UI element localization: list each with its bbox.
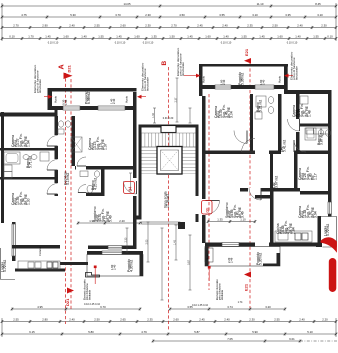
left unit facade wall west section — [0, 113, 58, 117]
section marker E21 bottom — [244, 272, 251, 278]
section line E21 (red dashed) — [249, 63, 251, 308]
interior wall camera1/bagno — [0, 148, 57, 151]
svg-text:5.21 m2: 5.21 m2 — [259, 100, 263, 112]
svg-text:4.30 m2: 4.30 m2 — [130, 260, 134, 272]
right unit facade east section — [285, 90, 332, 94]
kitchen bottom wall — [15, 269, 65, 272]
room label lav — [272, 176, 279, 188]
svg-text:0.10: 0.10 — [9, 35, 15, 39]
right balcony left wall — [199, 64, 203, 96]
svg-text:6.70: 6.70 — [100, 305, 106, 309]
elemento decorativo note top-left-right — [141, 63, 150, 91]
closet corridor — [71, 137, 82, 152]
svg-text:3.74: 3.74 — [227, 305, 233, 309]
svg-text:6.15: 6.15 — [29, 330, 35, 334]
facade join — [55, 110, 58, 117]
svg-text:3.67 m2: 3.67 m2 — [275, 176, 279, 188]
elevator shaft — [157, 147, 182, 175]
room label bagno left — [26, 156, 33, 168]
svg-text:3.46: 3.46 — [241, 211, 245, 218]
kitchen counter left — [18, 261, 60, 269]
room label corridoio — [64, 171, 71, 185]
corridor south wall right unit — [240, 188, 300, 192]
left balcony right thick edge — [140, 251, 144, 276]
room label soggiorno right — [225, 202, 245, 218]
dim row end ties — [1, 3, 3, 41]
right unit bottom wall — [205, 243, 320, 247]
right balcony parapet top — [199, 64, 288, 67]
svg-text:5.72 m2: 5.72 m2 — [326, 224, 330, 236]
room label camera 2 right — [292, 103, 312, 117]
dimension row top 3 — [1, 26, 338, 29]
svg-text:0.10 0.10: 0.10 0.10 — [287, 42, 298, 45]
corridor east wall — [72, 116, 76, 166]
room label camera 4 right — [298, 204, 318, 218]
svg-text:11.10: 11.10 — [257, 2, 264, 6]
svg-text:3.55: 3.55 — [219, 13, 225, 17]
loggia west wall — [318, 216, 322, 247]
svg-text:5.80: 5.80 — [88, 330, 94, 334]
wall camera-mid south — [75, 166, 133, 170]
svg-text:3.10: 3.10 — [252, 13, 258, 17]
svg-text:8.45: 8.45 — [315, 2, 321, 6]
svg-text:1.40: 1.40 — [81, 35, 87, 39]
svg-text:5.10: 5.10 — [307, 330, 313, 334]
room label camera 3 right — [298, 166, 318, 180]
svg-text:3.04: 3.04 — [230, 111, 234, 118]
svg-text:Vuoto: Vuoto — [278, 75, 282, 83]
svg-text:0.10 2.45 0.10: 0.10 2.45 0.10 — [84, 303, 101, 306]
svg-text:1.55: 1.55 — [98, 35, 104, 39]
svg-text:2.60: 2.60 — [120, 24, 126, 28]
svg-text:5.30 m2: 5.30 m2 — [259, 253, 263, 265]
svg-text:1.35: 1.35 — [217, 218, 223, 222]
svg-text:2.40: 2.40 — [299, 318, 305, 322]
loggia wall piece — [316, 243, 322, 248]
svg-text:2.45: 2.45 — [197, 24, 203, 28]
svg-text:14.05: 14.05 — [124, 2, 131, 6]
loggia right outline — [318, 217, 337, 248]
corner piece — [178, 222, 185, 229]
room label bagno small — [91, 178, 98, 190]
bathtub left bagno — [4, 152, 20, 164]
svg-text:2.40: 2.40 — [69, 318, 75, 322]
room label poggiolo top left — [85, 91, 92, 104]
svg-text:3.10: 3.10 — [317, 13, 323, 17]
svg-text:2.40: 2.40 — [69, 24, 75, 28]
svg-text:6.01: 6.01 — [289, 337, 295, 341]
svg-text:2.40: 2.40 — [112, 98, 116, 104]
stairwell entrance door arc left — [124, 181, 137, 194]
small bathroom walls — [78, 193, 105, 197]
svg-text:strutturale: strutturale — [146, 77, 150, 91]
svg-text:1.40: 1.40 — [64, 99, 68, 105]
big red swoosh arrow — [321, 237, 337, 253]
svg-text:0.10 0.10: 0.10 0.10 — [115, 42, 126, 45]
svg-text:4.20 m2: 4.20 m2 — [94, 178, 98, 190]
svg-text:2.20: 2.20 — [322, 318, 328, 322]
svg-text:2.50: 2.50 — [94, 318, 100, 322]
room label poggiolo top right — [238, 72, 245, 85]
svg-text:2.33: 2.33 — [124, 237, 127, 242]
room label bagno right 1 — [256, 100, 263, 112]
soggiorno/cucina stub wall — [255, 195, 274, 199]
svg-text:1.60: 1.60 — [205, 35, 211, 39]
section marker D21 bottom — [67, 288, 74, 294]
svg-text:1.30: 1.30 — [152, 113, 155, 118]
room label vano scala — [164, 191, 171, 208]
dimension row top 4 — [1, 37, 338, 40]
svg-text:5.90: 5.90 — [252, 330, 258, 334]
stairs left flight treads — [142, 147, 158, 171]
svg-text:5.87: 5.87 — [187, 260, 190, 265]
svg-text:2.65: 2.65 — [120, 318, 126, 322]
interior dim horizontal — [77, 221, 142, 224]
room label loggia right — [324, 224, 331, 236]
svg-text:2.55: 2.55 — [13, 318, 19, 322]
window balcony left 1 — [63, 106, 80, 110]
svg-text:4.95: 4.95 — [37, 305, 43, 309]
svg-text:6.56 m2: 6.56 m2 — [87, 92, 91, 104]
right unit west wall — [202, 96, 206, 243]
svg-text:2.55: 2.55 — [274, 318, 280, 322]
svg-text:2.70: 2.70 — [13, 24, 19, 28]
svg-text:3.87 m2: 3.87 m2 — [320, 133, 324, 145]
left inset wall with window band — [12, 222, 16, 261]
svg-text:2.70: 2.70 — [171, 24, 177, 28]
cucina west wall — [270, 191, 274, 243]
stairwell right wall — [196, 125, 199, 223]
svg-text:2.40: 2.40 — [262, 79, 266, 85]
room label camera 1 left — [11, 133, 31, 147]
interior dims notch — [126, 228, 129, 252]
svg-text:17.36 m2: 17.36 m2 — [166, 194, 170, 208]
svg-text:Vuoto: Vuoto — [207, 253, 210, 260]
svg-text:1.45: 1.45 — [116, 35, 122, 39]
wall camera1R/bagnoR — [250, 94, 253, 152]
wall camera2R east — [296, 94, 300, 151]
svg-text:1.45: 1.45 — [45, 35, 51, 39]
svg-text:1.48: 1.48 — [308, 110, 312, 117]
room label soggiorno left — [93, 206, 113, 222]
svg-text:1.30: 1.30 — [27, 198, 31, 205]
section line center-right (red dashed) — [208, 94, 210, 290]
right unit facade with windows — [203, 85, 286, 89]
stairwell bottom thin wall — [142, 222, 181, 224]
svg-text:5.41 m2: 5.41 m2 — [283, 140, 287, 152]
left unit south wall mid — [88, 246, 137, 250]
elemento decorativo notes (black) — [33, 65, 42, 93]
room label bagno east — [317, 133, 324, 145]
wardrobe left wall boxes — [4, 165, 12, 172]
svg-text:1.55: 1.55 — [241, 35, 247, 39]
top notch dims — [153, 108, 156, 123]
svg-text:1.35: 1.35 — [151, 35, 157, 39]
svg-text:strutturale: strutturale — [221, 289, 224, 300]
section line B (red dashed) — [168, 67, 170, 331]
window balcony left 2 — [98, 106, 125, 110]
svg-text:2.50: 2.50 — [272, 24, 278, 28]
room label camera 2 left — [11, 191, 31, 205]
red dot + leader bottom left — [94, 266, 97, 269]
svg-text:0.10 0.10: 0.10 0.10 — [221, 42, 232, 45]
svg-text:1.60: 1.60 — [277, 35, 283, 39]
svg-text:2.60: 2.60 — [173, 318, 179, 322]
svg-text:0.10 0.10: 0.10 0.10 — [143, 42, 154, 45]
svg-text:0.10 0.10: 0.10 0.10 — [48, 42, 59, 45]
svg-text:3.35: 3.35 — [285, 13, 291, 17]
svg-text:1.40: 1.40 — [223, 35, 229, 39]
balcony right thick edges — [277, 253, 281, 266]
svg-text:D21: D21 — [65, 298, 70, 306]
small bathroom fixtures — [80, 171, 88, 177]
svg-text:5.49: 5.49 — [109, 215, 113, 222]
svg-text:2.35: 2.35 — [247, 24, 253, 28]
stairs right flight treads — [182, 147, 196, 171]
svg-text:2.40: 2.40 — [113, 264, 117, 270]
room label cottura — [38, 247, 42, 256]
wall camera2R / bagno east — [300, 124, 332, 127]
wc top corridor fixtures — [58, 121, 63, 127]
red dot + leader bottom center — [208, 266, 211, 269]
svg-text:B: B — [161, 61, 168, 66]
door number 05 — [202, 201, 213, 215]
room label loggia left — [1, 260, 8, 272]
svg-text:1.50: 1.50 — [169, 35, 175, 39]
svg-text:1.60: 1.60 — [63, 35, 69, 39]
svg-text:E21: E21 — [244, 283, 249, 291]
svg-text:Vuoto: Vuoto — [54, 95, 58, 103]
svg-text:1.37: 1.37 — [104, 143, 108, 150]
niche right balcony — [205, 248, 213, 262]
svg-text:Vuoto: Vuoto — [125, 95, 129, 103]
bagno R1 fixtures — [256, 96, 266, 107]
door number 04 — [124, 182, 135, 194]
dimension row bottom 2 — [1, 320, 338, 323]
svg-text:5.30: 5.30 — [70, 13, 76, 17]
svg-text:3.70: 3.70 — [115, 13, 121, 17]
svg-text:5.71 m2: 5.71 m2 — [29, 156, 33, 168]
room label poggiolo bottom left — [127, 259, 134, 272]
sink + wc left bagno — [23, 155, 29, 160]
svg-text:2.40: 2.40 — [224, 318, 230, 322]
chimney block — [161, 126, 176, 133]
vuoto labels + dims top right — [202, 75, 206, 83]
svg-text:4.75: 4.75 — [21, 13, 27, 17]
left unit facade wall with balcony windows — [48, 106, 137, 110]
svg-text:2.40: 2.40 — [222, 79, 226, 85]
svg-text:2.20: 2.20 — [119, 219, 125, 223]
left unit east wall — [133, 92, 137, 249]
svg-text:E21: E21 — [244, 48, 249, 56]
svg-text:7.05: 7.05 — [227, 337, 233, 341]
stairwell top wall — [139, 125, 199, 128]
svg-text:2.49: 2.49 — [230, 257, 234, 263]
svg-text:1.55: 1.55 — [313, 35, 319, 39]
room label poggiolo bottom right — [256, 252, 263, 265]
svg-text:4.50: 4.50 — [179, 13, 185, 17]
section line D21 (red dashed) — [70, 79, 72, 310]
lav west wall — [270, 154, 273, 192]
svg-text:0.10 1.35 0.10: 0.10 1.35 0.10 — [192, 304, 209, 307]
svg-text:strutturale: strutturale — [89, 289, 92, 300]
svg-text:2.40: 2.40 — [222, 24, 228, 28]
svg-text:2.40: 2.40 — [297, 24, 303, 28]
left outer wall — [1, 112, 4, 223]
right balcony right wall — [284, 64, 288, 94]
corridor north wall right unit — [206, 151, 332, 155]
wall bagnoR/camera2R — [278, 94, 282, 152]
svg-text:2.45: 2.45 — [199, 318, 205, 322]
dimension row top 1 — [1, 4, 338, 7]
svg-text:2.30: 2.30 — [249, 318, 255, 322]
door arcs left unit — [47, 136, 58, 147]
lav east wall — [294, 154, 298, 192]
corridor west wall — [55, 116, 59, 196]
vuoto + dims top left — [54, 95, 58, 103]
door arcs right unit — [242, 139, 256, 153]
kitchen counter right — [275, 231, 312, 242]
bagno R2 fixtures east — [305, 128, 316, 140]
dimension row top 2 — [1, 15, 338, 18]
svg-text:2.30: 2.30 — [321, 24, 327, 28]
svg-text:2.30: 2.30 — [145, 24, 151, 28]
interior wall bagno/camera2 — [0, 177, 57, 180]
svg-text:strutturale: strutturale — [38, 79, 42, 93]
svg-text:A: A — [57, 64, 66, 69]
svg-text:1.45: 1.45 — [187, 35, 193, 39]
svg-text:strutturale: strutturale — [181, 62, 185, 76]
svg-text:2.37: 2.37 — [174, 97, 177, 102]
svg-text:1.17: 1.17 — [314, 173, 318, 180]
left unit bottom wall — [12, 245, 60, 249]
right bottom balcony poggiolo — [205, 243, 209, 267]
svg-text:5.19 m2: 5.19 m2 — [66, 173, 70, 185]
svg-text:2.90: 2.90 — [42, 24, 48, 28]
svg-text:1.40: 1.40 — [173, 240, 176, 245]
big red capsule bar — [329, 258, 337, 292]
dimension row bottom 4 — [152, 339, 302, 342]
room label camera mid — [88, 136, 108, 150]
svg-text:1.70: 1.70 — [28, 35, 34, 39]
dims balcony window left — [110, 264, 117, 270]
svg-text:2.84: 2.84 — [292, 227, 296, 234]
stairwell left wall — [139, 125, 142, 220]
svg-text:2.55: 2.55 — [94, 24, 100, 28]
stairwell bottom wall block — [133, 216, 142, 220]
svg-text:1.94: 1.94 — [27, 140, 31, 147]
wall east rooms divider — [300, 191, 332, 195]
red leader arrows to decorative elements — [44, 96, 48, 98]
svg-text:1.60: 1.60 — [134, 35, 140, 39]
top row extra small texts — [48, 42, 298, 45]
dims balcony right — [227, 257, 234, 263]
threshold step — [86, 273, 100, 278]
svg-text:2.80: 2.80 — [42, 318, 48, 322]
section line A (red dashed) — [65, 73, 67, 324]
dimension row bottom 3 — [1, 332, 338, 335]
dimension row bottom 1 — [11, 307, 142, 310]
left unit balcony parapet top wall — [48, 88, 137, 92]
room label dis — [280, 140, 287, 152]
room label camera 1 right — [214, 104, 234, 118]
svg-text:0.10: 0.10 — [327, 35, 333, 39]
svg-text:strutturale: strutturale — [295, 66, 299, 80]
svg-text:5.87: 5.87 — [194, 330, 200, 334]
svg-text:2.35: 2.35 — [147, 318, 153, 322]
svg-text:05: 05 — [205, 207, 210, 213]
svg-text:5.36 m2: 5.36 m2 — [241, 73, 245, 85]
loggia left outline — [1, 248, 15, 280]
right unit east wall — [328, 90, 332, 217]
room label cucina — [276, 220, 296, 234]
left unit balcony left wall — [48, 88, 53, 110]
svg-text:5.72 m2: 5.72 m2 — [3, 260, 7, 272]
wardrobe camera2R row — [306, 128, 314, 134]
notch long vdim — [161, 228, 164, 300]
svg-text:3.20: 3.20 — [265, 305, 271, 309]
svg-text:3.94: 3.94 — [314, 211, 318, 218]
svg-text:4.79: 4.79 — [141, 330, 147, 334]
niche vuoto label — [207, 253, 210, 260]
svg-text:04: 04 — [128, 186, 133, 192]
right unit west outside dim — [176, 78, 179, 122]
stair landing edge line — [142, 173, 196, 175]
svg-text:Cottura: Cottura — [38, 247, 42, 256]
svg-text:D21: D21 — [67, 64, 72, 72]
svg-text:1.45: 1.45 — [259, 35, 265, 39]
balcony right top dim — [207, 220, 257, 223]
svg-text:1.40: 1.40 — [295, 35, 301, 39]
left bottom balcony poggiolo — [87, 251, 143, 255]
stairs upper flight treads — [142, 133, 196, 147]
svg-text:1.74: 1.74 — [238, 301, 243, 304]
svg-text:2.30: 2.30 — [145, 13, 151, 17]
kitchen-balcony wall — [60, 262, 88, 265]
svg-text:0.91 0.30: 0.91 0.30 — [163, 117, 174, 120]
svg-text:2.03: 2.03 — [145, 239, 148, 244]
svg-text:Vuoto: Vuoto — [202, 75, 206, 83]
niche dim — [129, 173, 132, 190]
